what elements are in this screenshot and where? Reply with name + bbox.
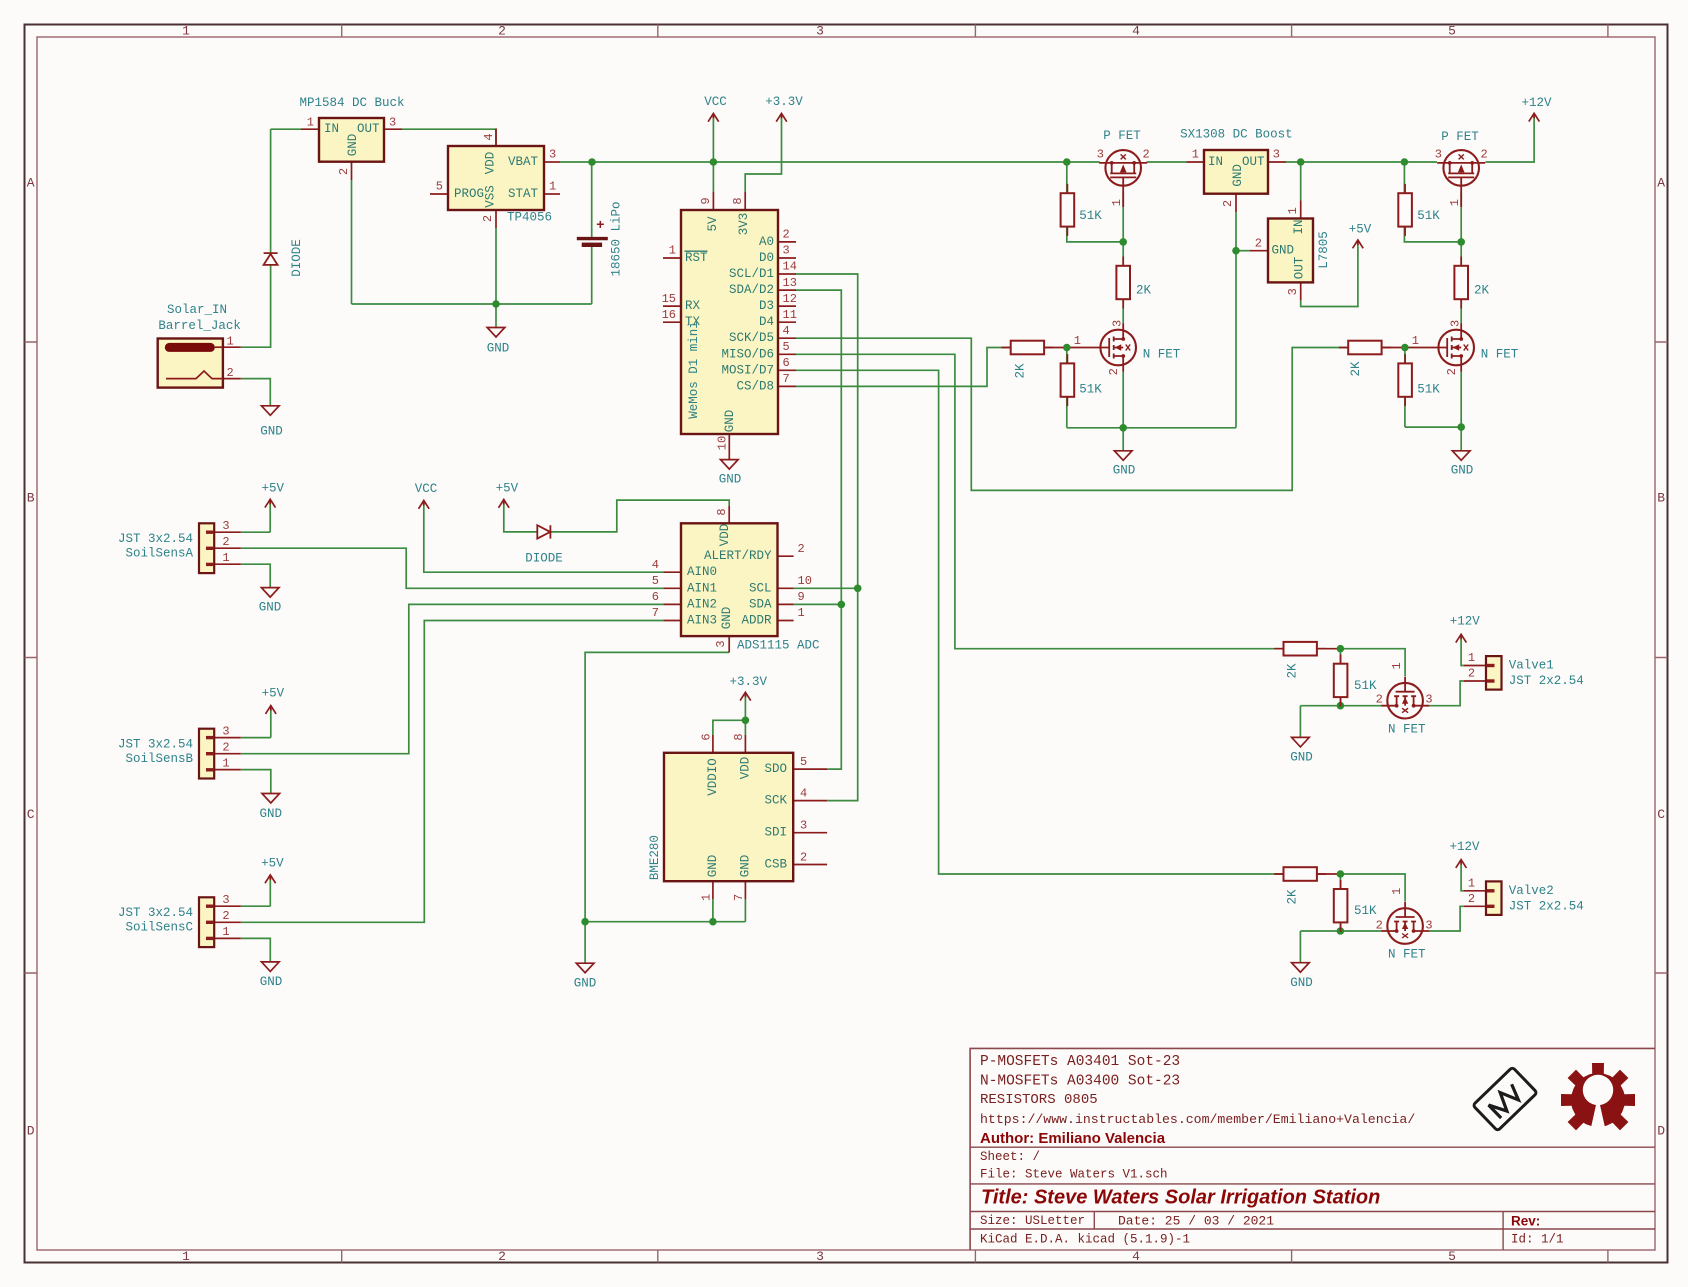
svg-text:10: 10 — [798, 574, 812, 588]
pins mp1584 pins — [301, 129, 402, 180]
pins wemos left pins — [663, 258, 681, 322]
svg-text:2: 2 — [1376, 693, 1383, 707]
pins ads right pins — [778, 556, 794, 620]
svg-text:VCC: VCC — [415, 482, 438, 496]
svg-text:5: 5 — [1448, 24, 1456, 39]
svg-text:CSB: CSB — [764, 858, 787, 872]
svg-text:VDD: VDD — [739, 757, 753, 780]
svg-text:B: B — [1657, 491, 1665, 506]
resistor R 51K vertical — [1061, 184, 1103, 236]
svg-text:3: 3 — [783, 244, 790, 258]
svg-text:2: 2 — [783, 228, 790, 242]
transistor N FET valve1 — [1376, 662, 1433, 736]
svg-text:Rev:: Rev: — [1511, 1214, 1540, 1229]
wire pfetL drain link — [1122, 299, 1124, 324]
wire valve1 gate — [1340, 649, 1405, 677]
svg-text:D4: D4 — [759, 315, 774, 329]
svg-text:SDO: SDO — [764, 762, 787, 776]
svg-text:12: 12 — [783, 292, 797, 306]
svg-text:1: 1 — [1286, 207, 1300, 214]
svg-text:15: 15 — [662, 292, 676, 306]
wire boost in — [1147, 161, 1187, 163]
svg-text:A: A — [27, 176, 35, 191]
transistor P FET right — [1435, 130, 1488, 207]
svg-text:51K: 51K — [1079, 209, 1102, 223]
svg-text:1: 1 — [1390, 662, 1404, 669]
resistor R 51K vertical — [1398, 354, 1440, 406]
svg-text:10: 10 — [716, 436, 730, 450]
svg-text:+5V: +5V — [1349, 223, 1372, 237]
wire valve2 gate — [1340, 874, 1405, 902]
wire wemos d1 scl — [794, 274, 858, 801]
svg-text:2: 2 — [222, 535, 229, 549]
svg-text:4: 4 — [1132, 24, 1140, 39]
svg-text:16: 16 — [662, 308, 676, 322]
svg-text:3: 3 — [549, 148, 556, 162]
svg-text:1: 1 — [1448, 199, 1462, 206]
wire sensB gnd — [241, 770, 271, 794]
svg-text:SCL/D1: SCL/D1 — [729, 267, 774, 281]
wire vcc to ain0 — [424, 504, 664, 572]
svg-text:Size: USLetter: Size: USLetter — [980, 1214, 1085, 1228]
wire l7805 in — [1300, 162, 1302, 201]
svg-text:2: 2 — [1445, 368, 1459, 375]
svg-text:8: 8 — [731, 197, 745, 204]
svg-text:GND: GND — [260, 975, 283, 989]
resistor R 2K vertical — [1454, 257, 1489, 309]
svg-text:JST 3x2.54: JST 3x2.54 — [118, 532, 193, 546]
svg-text:2: 2 — [1255, 236, 1262, 250]
wire boost out 12v — [1286, 117, 1534, 162]
pins res leads R — [1381, 347, 1432, 349]
title block — [970, 1048, 1655, 1250]
svg-text:51K: 51K — [1354, 679, 1377, 693]
svg-text:JST 3x2.54: JST 3x2.54 — [118, 737, 193, 751]
svg-text:N FET: N FET — [1143, 348, 1181, 362]
svg-text:GND: GND — [1451, 463, 1474, 477]
svg-text:OUT: OUT — [357, 122, 380, 136]
svg-text:3: 3 — [816, 1249, 824, 1264]
svg-text:3: 3 — [222, 724, 229, 738]
svg-text:3V3: 3V3 — [737, 213, 751, 236]
pins sx1308 pins — [1187, 162, 1287, 212]
svg-text:C: C — [27, 807, 35, 822]
power +12V — [1521, 96, 1552, 122]
transistor N FET right — [1412, 320, 1519, 376]
svg-text:GND: GND — [1272, 243, 1295, 257]
svg-text:51K: 51K — [1417, 383, 1440, 397]
svg-text:5V: 5V — [706, 216, 720, 232]
svg-text:GND: GND — [1290, 976, 1313, 990]
svg-text:C: C — [1657, 807, 1665, 822]
svg-text:SDI: SDI — [764, 826, 787, 840]
svg-text:8: 8 — [715, 508, 729, 515]
resistor R 2K horizontal — [1274, 642, 1326, 679]
svg-text:TP4056: TP4056 — [507, 211, 552, 225]
resistor R 2K horizontal — [1339, 341, 1391, 377]
connector J1 Solar_IN Barrel_Jack — [158, 303, 241, 388]
wire sensA 5v — [241, 503, 270, 532]
svg-text:+12V: +12V — [1449, 840, 1480, 854]
svg-text:1: 1 — [222, 551, 229, 565]
svg-text:+5V: +5V — [262, 482, 285, 496]
svg-text:51K: 51K — [1354, 904, 1377, 918]
wire 5v diode vdd — [504, 500, 729, 532]
wire valve2 pulldown — [1339, 874, 1341, 931]
svg-text:1: 1 — [1412, 334, 1419, 348]
pins res leads L — [1045, 347, 1095, 349]
svg-text:A0: A0 — [759, 235, 774, 249]
connector Valve2 JST 2x2.54 — [1468, 877, 1584, 915]
svg-text:JST 3x2.54: JST 3x2.54 — [118, 906, 193, 920]
svg-text:1: 1 — [222, 756, 229, 770]
svg-text:Valve1: Valve1 — [1509, 659, 1554, 673]
svg-text:AIN3: AIN3 — [687, 614, 717, 628]
svg-text:SCK: SCK — [764, 794, 787, 808]
wire sensC gnd — [241, 938, 270, 962]
ground — [260, 406, 283, 439]
svg-text:IN: IN — [1292, 219, 1306, 234]
svg-text:5: 5 — [1448, 1249, 1456, 1264]
gear logo — [1561, 1063, 1635, 1141]
wire valve2 src gnd — [1300, 931, 1381, 963]
svg-text:3: 3 — [389, 116, 396, 130]
svg-text:2: 2 — [498, 1249, 506, 1264]
wire sensA gnd — [241, 564, 270, 587]
svg-text:GND: GND — [1231, 164, 1245, 187]
svg-text:SDA/D2: SDA/D2 — [729, 283, 774, 297]
svg-text:3: 3 — [1435, 148, 1442, 162]
wire gnd bus top — [352, 180, 592, 328]
svg-text:A: A — [1657, 176, 1665, 191]
wire nfetL src gnd — [1067, 372, 1236, 451]
svg-text:Barrel_Jack: Barrel_Jack — [158, 319, 241, 333]
wire wemos d5 sck — [796, 338, 1349, 490]
ground — [1113, 451, 1136, 478]
svg-text:RX: RX — [685, 299, 701, 313]
IC U6 SX1308 DC Boost — [1180, 128, 1293, 207]
wire solar gnd — [241, 379, 270, 406]
svg-text:2K: 2K — [1286, 663, 1300, 679]
wire valve2 drain — [1429, 906, 1464, 931]
svg-text:D3: D3 — [759, 299, 774, 313]
svg-text:+5V: +5V — [496, 482, 519, 496]
svg-text:GND: GND — [260, 425, 283, 439]
wire valve1 drain — [1429, 681, 1464, 706]
svg-text:GND: GND — [259, 601, 282, 615]
ground — [259, 588, 282, 615]
power +5V — [261, 856, 284, 883]
svg-text:3: 3 — [1097, 148, 1104, 162]
svg-text:VDD: VDD — [718, 524, 732, 547]
svg-text:GND: GND — [260, 807, 283, 821]
wire sensB 5v — [241, 709, 271, 738]
IC U2 TP4056 — [436, 133, 556, 224]
svg-text:Title: Steve Waters Solar Irri: Title: Steve Waters Solar Irrigation Sta… — [981, 1187, 1380, 1209]
wire valve1 pulldown — [1339, 649, 1341, 706]
svg-text:3: 3 — [800, 819, 807, 833]
svg-text:2: 2 — [337, 168, 351, 175]
wire buck out — [402, 129, 496, 146]
svg-text:3: 3 — [1286, 288, 1300, 295]
svg-text:IN: IN — [324, 122, 339, 136]
wire sensC 5v — [241, 879, 270, 907]
svg-text:+12V: +12V — [1450, 615, 1481, 629]
svg-text:2: 2 — [1468, 892, 1475, 906]
wire bme 3v3 — [713, 696, 746, 735]
svg-text:2: 2 — [481, 215, 495, 222]
svg-text:GND: GND — [706, 855, 720, 878]
power VCC — [415, 482, 438, 509]
svg-text:MP1584 DC Buck: MP1584 DC Buck — [299, 96, 404, 110]
wire bme gnd row — [585, 899, 745, 963]
svg-text:4: 4 — [482, 133, 496, 140]
ground — [1451, 451, 1474, 478]
svg-text:B: B — [27, 491, 35, 506]
svg-text:2: 2 — [1107, 368, 1121, 375]
svg-text:6: 6 — [700, 733, 714, 740]
svg-text:OUT: OUT — [1242, 155, 1265, 169]
pins tp4056 pins — [430, 129, 560, 229]
pins l7805 pins — [1250, 201, 1301, 301]
svg-text:File: Steve Waters V1.sch: File: Steve Waters V1.sch — [980, 1168, 1168, 1182]
svg-text:Id: 1/1: Id: 1/1 — [1511, 1233, 1564, 1247]
wire wemos d2 sda — [794, 290, 842, 769]
svg-text:ADDR: ADDR — [741, 614, 772, 628]
svg-text:DIODE: DIODE — [525, 552, 563, 566]
svg-text:+5V: +5V — [261, 856, 284, 870]
wire wemos d7 mosi — [796, 370, 1283, 874]
svg-text:N FET: N FET — [1388, 723, 1426, 737]
svg-text:2: 2 — [1376, 918, 1383, 932]
diode D1 (solar) — [264, 239, 304, 277]
wire nfetL pulldown — [1066, 348, 1068, 428]
ground — [487, 328, 510, 356]
wire ads gnd — [585, 652, 729, 921]
resistor R 2K vertical — [1116, 257, 1151, 309]
ground — [574, 963, 597, 990]
svg-text:N FET: N FET — [1388, 947, 1426, 961]
svg-text:VDDIO: VDDIO — [706, 758, 720, 796]
svg-text:JST 2x2.54: JST 2x2.54 — [1509, 674, 1584, 688]
resistor R 51K vertical — [1334, 880, 1377, 932]
svg-text:1: 1 — [307, 116, 314, 130]
IC U1 MP1584 DC Buck — [299, 96, 404, 175]
svg-text:3: 3 — [816, 24, 824, 39]
svg-text:SX1308 DC Boost: SX1308 DC Boost — [1180, 128, 1293, 142]
svg-text:5: 5 — [436, 180, 443, 194]
power +5V — [496, 482, 519, 508]
wire valve1 12v — [1461, 638, 1464, 666]
svg-text:3: 3 — [1449, 320, 1463, 327]
pins valve1 pins — [1464, 666, 1486, 682]
svg-text:2K: 2K — [1014, 363, 1028, 379]
svg-text:D0: D0 — [759, 251, 774, 265]
svg-text:IN: IN — [1208, 155, 1223, 169]
svg-text:1: 1 — [1074, 334, 1081, 348]
svg-text:OUT: OUT — [1293, 256, 1307, 279]
wire pfetL bias — [1067, 162, 1123, 266]
svg-text:SoilSensA: SoilSensA — [125, 547, 193, 561]
IC U3 WeMos D1 mini — [662, 197, 797, 450]
svg-text:1: 1 — [669, 244, 676, 258]
power +5V — [262, 482, 285, 508]
svg-text:https://www.instructables.com/: https://www.instructables.com/member/Emi… — [980, 1112, 1415, 1127]
wire solar to buck — [241, 129, 301, 347]
pins valve2 pins — [1464, 891, 1486, 907]
wire wemos d6 miso — [796, 354, 1283, 648]
power +5V — [1349, 223, 1372, 249]
IC U4 ADS1115 ADC — [652, 508, 820, 652]
battery BT1 18650 LiPo — [577, 201, 624, 276]
ground — [1290, 963, 1313, 990]
svg-text:STAT: STAT — [508, 187, 539, 201]
svg-text:2: 2 — [1481, 148, 1488, 162]
power +3.3V — [729, 675, 767, 701]
power VCC — [704, 95, 727, 122]
svg-text:4: 4 — [800, 787, 807, 801]
resistor R 2K horizontal — [1001, 341, 1053, 379]
svg-text:N-MOSFETs A03400 Sot-23: N-MOSFETs A03400 Sot-23 — [980, 1074, 1180, 1090]
svg-text:Date: 25 / 03 / 2021: Date: 25 / 03 / 2021 — [1118, 1214, 1274, 1229]
svg-text:1: 1 — [1192, 148, 1199, 162]
svg-text:+3.3V: +3.3V — [765, 95, 803, 109]
svg-text:ALERT/RDY: ALERT/RDY — [704, 549, 772, 563]
svg-text:13: 13 — [783, 276, 797, 290]
svg-text:GND: GND — [574, 977, 597, 991]
svg-text:2K: 2K — [1474, 283, 1490, 297]
svg-text:SCL: SCL — [749, 581, 772, 595]
svg-text:9: 9 — [699, 197, 713, 204]
svg-text:6: 6 — [652, 590, 659, 604]
svg-text:GND: GND — [720, 607, 734, 630]
svg-text:3: 3 — [222, 893, 229, 907]
svg-text:8: 8 — [732, 733, 746, 740]
svg-text:TX: TX — [685, 315, 701, 329]
svg-text:RST: RST — [685, 251, 708, 265]
svg-text:+3.3V: +3.3V — [729, 675, 767, 689]
svg-text:2: 2 — [798, 542, 805, 556]
svg-text:VCC: VCC — [704, 95, 727, 109]
svg-text:1: 1 — [1110, 199, 1124, 206]
svg-text:D: D — [1657, 1124, 1665, 1139]
svg-text:1: 1 — [227, 335, 234, 349]
svg-text:Sheet: /: Sheet: / — [980, 1150, 1040, 1164]
connector JST SoilSensC — [118, 893, 230, 947]
svg-text:18650 LiPo: 18650 LiPo — [610, 201, 624, 276]
svg-text:VSS: VSS — [484, 185, 498, 208]
svg-text:MOSI/D7: MOSI/D7 — [721, 363, 774, 377]
svg-text:P FET: P FET — [1103, 129, 1141, 143]
svg-text:2K: 2K — [1349, 361, 1363, 377]
svg-text:MISO/D6: MISO/D6 — [721, 347, 774, 361]
svg-text:+12V: +12V — [1521, 96, 1552, 110]
pins sensA pins — [214, 532, 241, 564]
power +3.3V — [765, 95, 803, 122]
svg-text:WeMos D1 mini: WeMos D1 mini — [687, 321, 701, 419]
svg-text:4: 4 — [1132, 1249, 1140, 1264]
wire nfetR pulldown — [1404, 348, 1406, 428]
svg-text:JST 2x2.54: JST 2x2.54 — [1509, 899, 1584, 913]
svg-text:7: 7 — [732, 894, 746, 901]
svg-text:AIN2: AIN2 — [687, 597, 717, 611]
power +12V — [1449, 840, 1480, 868]
svg-text:GND: GND — [346, 134, 360, 157]
svg-text:KiCad E.D.A. kicad (5.1.9)-1: KiCad E.D.A. kicad (5.1.9)-1 — [980, 1233, 1190, 1247]
KiCad logo — [1473, 1067, 1537, 1131]
svg-text:1: 1 — [798, 606, 805, 620]
IC U7 L7805 — [1255, 207, 1331, 295]
IC U5 BME280 — [648, 733, 807, 901]
wire valve1 src gnd — [1300, 706, 1381, 738]
svg-text:1: 1 — [1390, 888, 1404, 895]
svg-text:AIN0: AIN0 — [687, 565, 717, 579]
svg-text:1: 1 — [549, 180, 556, 194]
diode D2 (ADS supply) — [525, 525, 563, 566]
wire wemos d8 cs — [796, 348, 1010, 387]
svg-text:CS/D8: CS/D8 — [736, 379, 774, 393]
svg-text:1: 1 — [222, 925, 229, 939]
svg-text:2: 2 — [222, 741, 229, 755]
svg-text:2: 2 — [498, 24, 506, 39]
svg-text:Author: Emiliano Valencia: Author: Emiliano Valencia — [980, 1130, 1166, 1147]
wire sensA to ain1 — [241, 548, 664, 588]
wire p3v3 link — [745, 117, 781, 192]
ground — [1290, 737, 1313, 764]
svg-text:+5V: +5V — [262, 687, 285, 701]
svg-text:SCK/D5: SCK/D5 — [729, 331, 774, 345]
svg-text:+: + — [596, 218, 604, 234]
svg-text:3: 3 — [1111, 320, 1125, 327]
svg-text:L7805: L7805 — [1317, 231, 1331, 269]
resistor R 51K vertical — [1398, 184, 1440, 236]
svg-text:3: 3 — [1273, 148, 1280, 162]
pins ads left pins — [663, 572, 681, 620]
svg-text:2K: 2K — [1136, 283, 1152, 297]
svg-text:P-MOSFETs A03401 Sot-23: P-MOSFETs A03401 Sot-23 — [980, 1054, 1180, 1070]
svg-text:1: 1 — [182, 24, 190, 39]
svg-text:BME280: BME280 — [648, 835, 662, 880]
connector JST SoilSensB — [118, 724, 230, 778]
wire l7805 out 5v — [1301, 244, 1358, 307]
pins sensC pins — [214, 906, 241, 938]
svg-text:AIN1: AIN1 — [687, 581, 717, 595]
svg-text:2: 2 — [227, 366, 234, 380]
svg-text:4: 4 — [652, 558, 659, 572]
pins wemos right pins — [778, 242, 796, 387]
pins wemos top pins — [713, 192, 745, 210]
resistor R 2K horizontal — [1274, 867, 1326, 904]
pins wemos bottom pin — [728, 434, 730, 460]
svg-text:GND: GND — [719, 473, 742, 487]
transistor P FET left — [1097, 129, 1150, 207]
svg-text:3: 3 — [222, 519, 229, 533]
svg-text:14: 14 — [783, 260, 797, 274]
svg-text:Valve2: Valve2 — [1509, 884, 1554, 898]
svg-text:2: 2 — [1468, 667, 1475, 681]
pins bme bottom pins — [713, 881, 746, 899]
svg-text:VDD: VDD — [484, 152, 498, 175]
pins ads top bottom pins — [728, 506, 730, 652]
svg-text:1: 1 — [182, 1249, 190, 1264]
svg-text:SDA: SDA — [749, 597, 772, 611]
svg-text:GND: GND — [1290, 751, 1313, 765]
svg-text:GND: GND — [487, 342, 510, 356]
wire pfetR drain link — [1460, 299, 1462, 324]
svg-text:ADS1115 ADC: ADS1115 ADC — [737, 639, 820, 653]
ground — [719, 460, 742, 487]
svg-text:D: D — [27, 1124, 35, 1139]
